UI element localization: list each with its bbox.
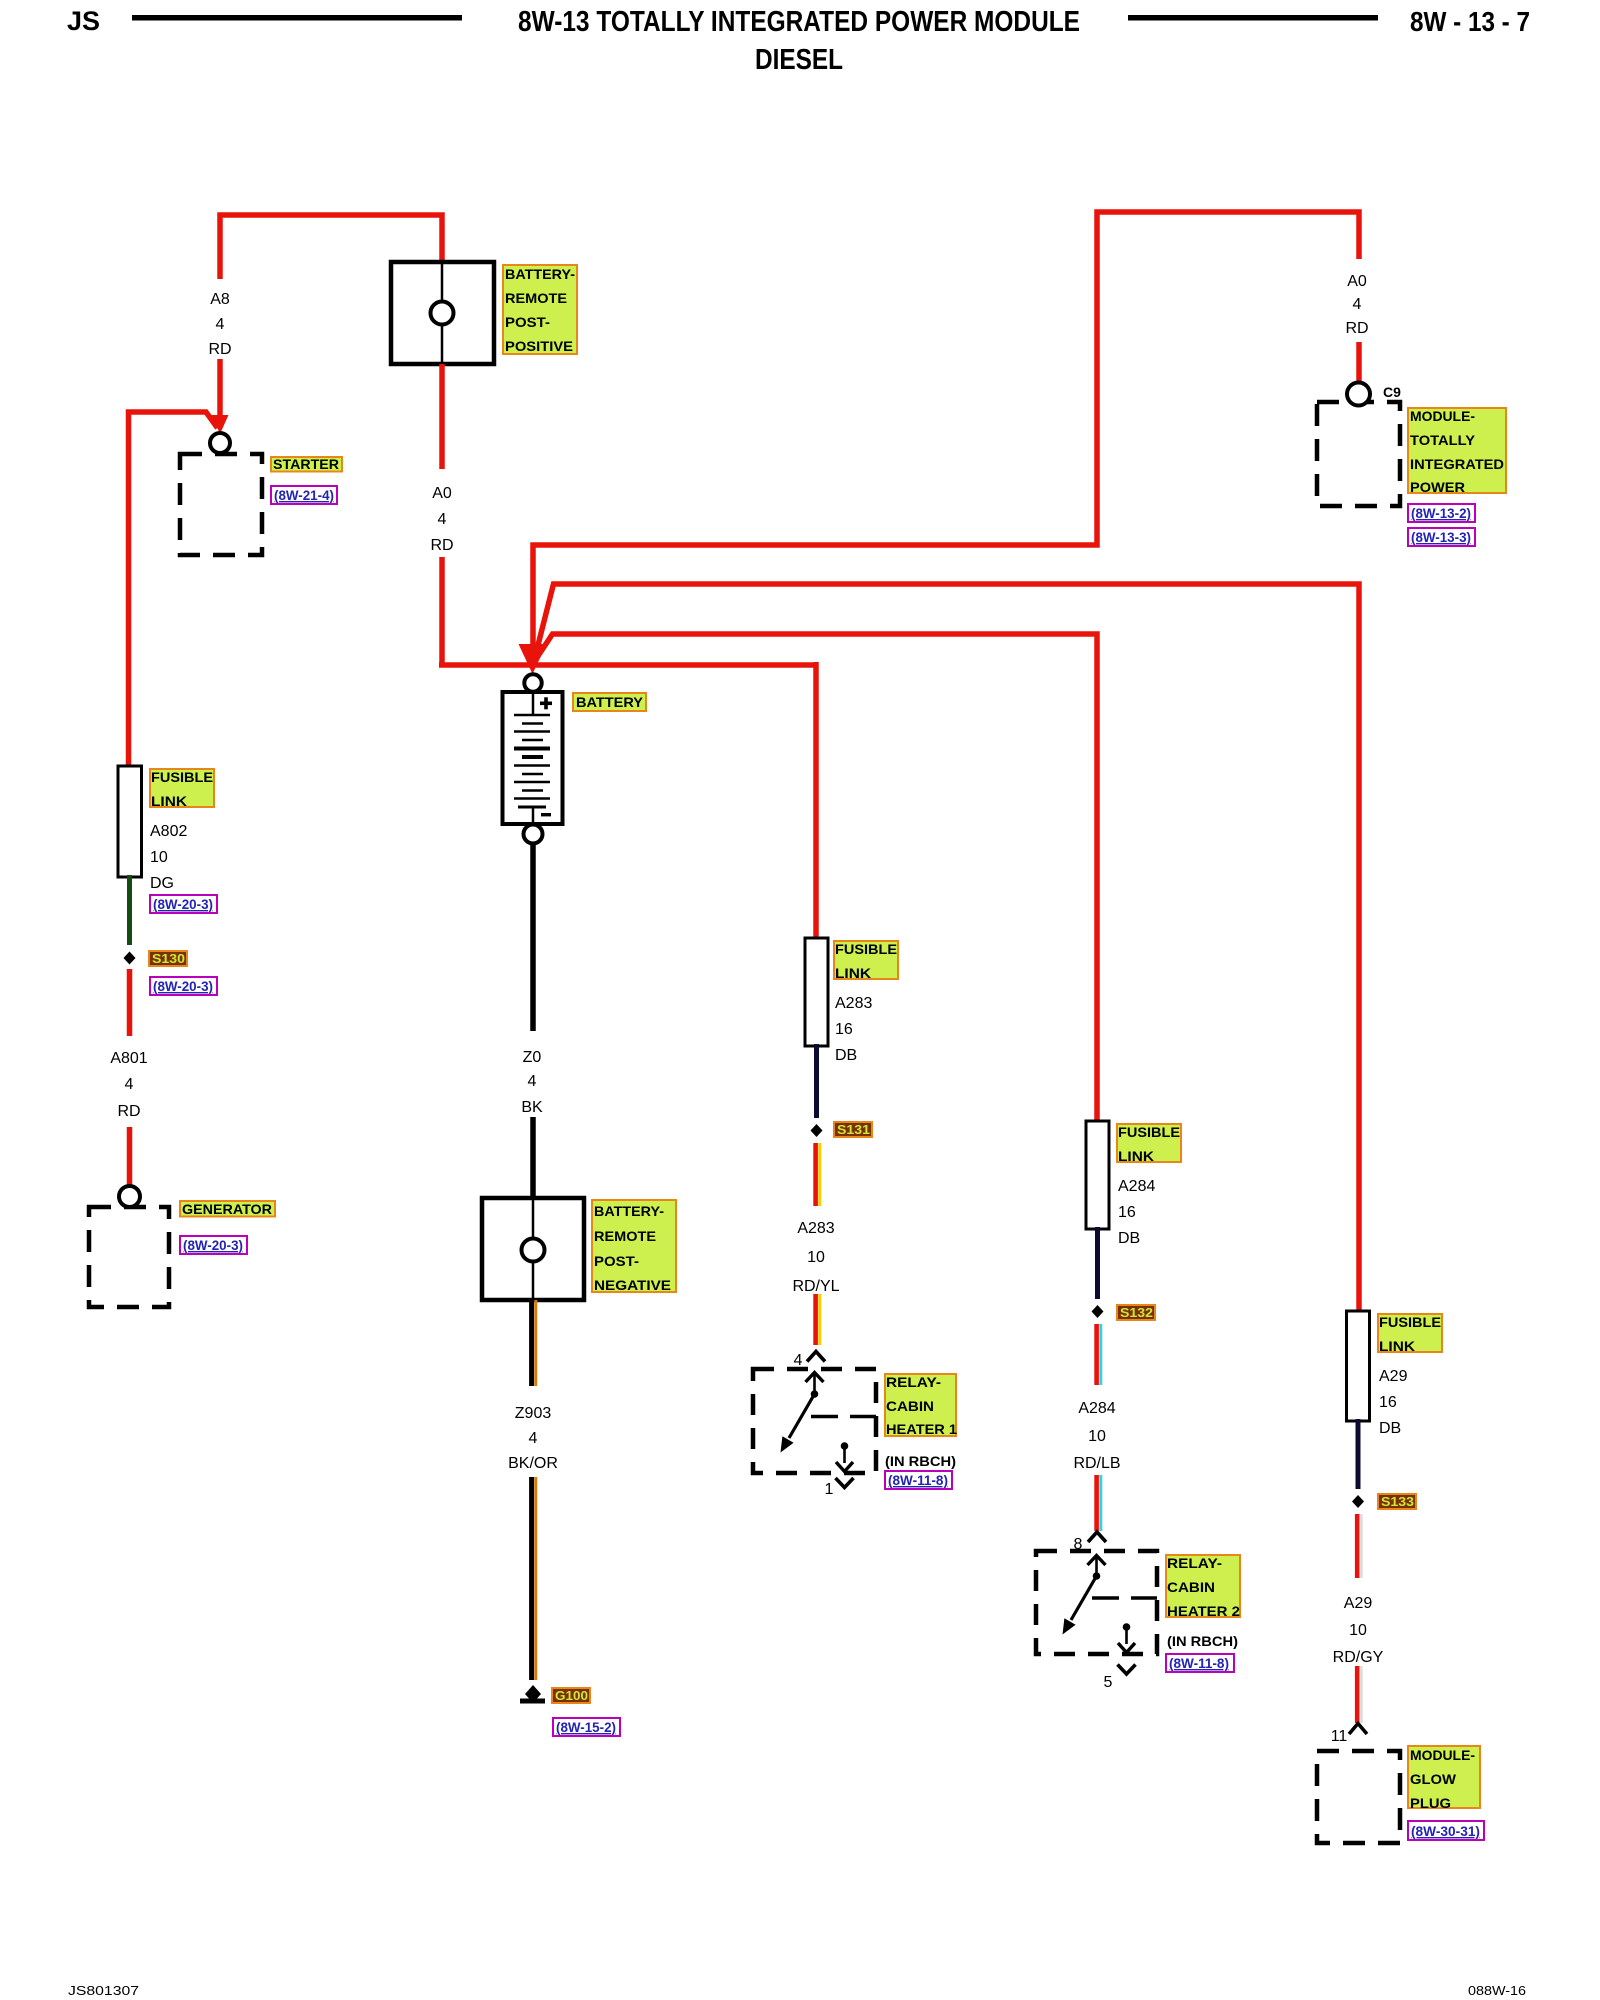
svg-text:S133: S133 (1381, 1494, 1414, 1509)
svg-text:10: 10 (150, 849, 168, 866)
splice S132 (1092, 1305, 1104, 1318)
fusible link A284 (1086, 1121, 1109, 1229)
link 8W-11-8 relay 2 (1166, 1654, 1234, 1672)
svg-text:4: 4 (125, 1076, 134, 1093)
svg-text:TOTALLY: TOTALLY (1410, 432, 1476, 448)
link 8W-20-3 (150, 895, 217, 913)
svg-text:DG: DG (150, 875, 174, 892)
svg-text:(IN RBCH): (IN RBCH) (885, 1453, 956, 1469)
wire battery feed riser to TIPM (533, 212, 1359, 652)
svg-text:JS: JS (67, 6, 100, 36)
generator dashed box (89, 1207, 169, 1307)
battery negative terminal ring (524, 825, 543, 844)
svg-text:A8: A8 (210, 291, 230, 308)
svg-text:1: 1 (825, 1481, 834, 1498)
svg-text:JS801307: JS801307 (68, 1983, 139, 1998)
battery remote post positive box (502, 691, 504, 693)
label MODULE-TOTALLY INTEGRATED POWER (1408, 408, 1506, 495)
svg-text:8W-13 TOTALLY INTEGRATED POWER: 8W-13 TOTALLY INTEGRATED POWER MODULE (518, 6, 1080, 38)
svg-text:4: 4 (216, 316, 225, 333)
label MODULE-GLOW PLUG (1408, 1746, 1480, 1811)
svg-text:PLUG: PLUG (1410, 1795, 1451, 1811)
svg-text:RD: RD (208, 341, 231, 358)
battery positive terminal ring (524, 674, 541, 691)
module totally integrated power dashed box (1317, 402, 1400, 506)
svg-text:REMOTE: REMOTE (505, 290, 567, 306)
svg-text:A0: A0 (1347, 273, 1367, 290)
svg-text:A284: A284 (1118, 1178, 1155, 1195)
label BATTERY-REMOTE POST-POSITIVE (503, 265, 577, 354)
splice S130 (124, 952, 136, 965)
svg-text:S132: S132 (1120, 1305, 1153, 1320)
svg-text:DB: DB (1379, 1420, 1401, 1437)
svg-text:(8W-11-8): (8W-11-8) (888, 1472, 948, 1488)
pin 5 chevron below relay 2 (1118, 1665, 1136, 1675)
pin 11 chevron of glow plug module (1349, 1724, 1367, 1735)
pin 1 chevron below relay 1 (836, 1478, 854, 1488)
svg-text:BATTERY-: BATTERY- (594, 1203, 664, 1219)
svg-text:A283: A283 (797, 1220, 834, 1237)
svg-text:A0: A0 (432, 485, 452, 502)
wire A284 16 DB segment (1095, 1227, 1100, 1299)
svg-text:RD/YL: RD/YL (792, 1278, 839, 1295)
svg-text:LINK: LINK (1379, 1338, 1415, 1354)
wire Z0 4 BK battery negative to remote post negative (530, 842, 536, 1031)
wire Z903 lower segment to ground (532, 1477, 536, 1680)
wire Z0 lower segment (530, 1117, 536, 1198)
label FUSIBLE LINK (A802) (150, 769, 214, 809)
svg-text:FUSIBLE: FUSIBLE (835, 941, 897, 957)
wire A801 4 RD lower segment (127, 1127, 133, 1186)
wire A283 10 RD/YL lower segment (816, 1294, 820, 1345)
wire A29 10 RD/GY upper segment (1357, 1514, 1361, 1578)
relay 1 internal pin arrow (806, 1373, 824, 1383)
link 8W-20-3 below S130 (150, 977, 217, 995)
relay 1 movable contact (789, 1394, 815, 1438)
svg-text:C9: C9 (1383, 384, 1401, 400)
label S133 (1378, 1494, 1416, 1509)
label GENERATOR (180, 1201, 275, 1217)
link 8W-20-3 generator (180, 1236, 247, 1254)
ground G100 (520, 1685, 545, 1704)
connector C9 ring (1347, 383, 1370, 406)
wire A29 16 DB segment (1356, 1419, 1361, 1489)
svg-text:NEGATIVE: NEGATIVE (594, 1277, 671, 1293)
svg-text:POWER: POWER (1410, 479, 1465, 495)
wire A0 4 RD from remote post positive down to battery positive (439, 364, 445, 469)
starter terminal ring (210, 433, 230, 453)
svg-text:RD: RD (430, 537, 453, 554)
fusible link A29 (1347, 1311, 1370, 1421)
wire A0 4 RD into connector C9 (1356, 342, 1362, 384)
junction arrowhead at starter terminal (212, 415, 229, 434)
battery (503, 690, 563, 824)
svg-text:10: 10 (1349, 1622, 1367, 1639)
fusible link A802 (118, 766, 142, 877)
svg-text:REMOTE: REMOTE (594, 1228, 656, 1244)
svg-text:(IN RBCH): (IN RBCH) (1167, 1633, 1238, 1649)
wire A802 10 DG segment (127, 875, 132, 945)
relay 1 actuator dashes (811, 1415, 838, 1418)
wire Z903 4 BK/OR upper segment (532, 1300, 536, 1386)
svg-text:G100: G100 (555, 1688, 588, 1703)
svg-text:(8W-30-31): (8W-30-31) (1411, 1823, 1480, 1839)
wire A0 4 RD corner into battery junction and feed to fusible link A283 (439, 557, 445, 665)
svg-text:LINK: LINK (835, 965, 871, 981)
svg-text:4: 4 (794, 1352, 803, 1369)
header rule right (1128, 15, 1378, 21)
svg-text:Z0: Z0 (523, 1049, 542, 1066)
svg-text:HEATER 1: HEATER 1 (886, 1421, 957, 1437)
svg-text:4: 4 (1353, 296, 1362, 313)
svg-text:(8W-20-3): (8W-20-3) (153, 896, 213, 912)
label BATTERY-REMOTE POST-NEGATIVE (592, 1200, 676, 1293)
svg-text:POSITIVE: POSITIVE (505, 338, 573, 354)
wire A8 4 RD top run from starter branch to battery remote post positive (220, 215, 442, 279)
relay cabin heater 1 dashed box (753, 1369, 876, 1473)
link 8W-11-8 relay 1 (885, 1471, 952, 1489)
svg-text:8W - 13 - 7: 8W - 13 - 7 (1410, 6, 1530, 37)
svg-text:4: 4 (438, 511, 447, 528)
wire A283 16 DB segment (814, 1044, 819, 1118)
svg-text:A283: A283 (835, 995, 872, 1012)
svg-text:BK/OR: BK/OR (508, 1455, 558, 1472)
svg-text:16: 16 (1118, 1204, 1136, 1221)
junction arrowhead at battery positive terminal (519, 644, 547, 674)
relay 2 fixed contact pin 5 (1123, 1623, 1131, 1631)
svg-text:16: 16 (835, 1021, 853, 1038)
label BATTERY (573, 693, 646, 711)
header rule left (132, 15, 462, 21)
wire A8 4 RD lower segment into starter terminal (217, 359, 223, 418)
svg-text:10: 10 (1088, 1428, 1106, 1445)
splice S133 (1352, 1495, 1364, 1508)
pin 4 chevron of relay cabin heater 1 (807, 1352, 825, 1362)
svg-text:A284: A284 (1078, 1400, 1115, 1417)
svg-text:(8W-11-8): (8W-11-8) (1169, 1655, 1229, 1671)
svg-text:RELAY-: RELAY- (886, 1374, 941, 1390)
svg-text:(8W-13-2): (8W-13-2) (1411, 505, 1471, 521)
label S132 (1117, 1305, 1155, 1320)
label S131 (834, 1122, 872, 1137)
label STARTER (271, 457, 342, 472)
svg-text:A29: A29 (1344, 1595, 1373, 1612)
wire A284 10 RD/LB upper segment (1097, 1324, 1101, 1385)
relay 2 internal pin arrow (1088, 1556, 1106, 1566)
svg-text:FUSIBLE: FUSIBLE (151, 769, 213, 785)
svg-text:A802: A802 (150, 823, 187, 840)
pin 8 chevron of relay cabin heater 2 (1088, 1532, 1106, 1542)
svg-text:FUSIBLE: FUSIBLE (1379, 1314, 1441, 1330)
svg-text:STARTER: STARTER (273, 456, 339, 472)
svg-text:RD/GY: RD/GY (1333, 1649, 1384, 1666)
link 8W-30-31 (1408, 1821, 1484, 1840)
svg-text:4: 4 (529, 1430, 538, 1447)
label FUSIBLE LINK (A284) (1117, 1124, 1181, 1164)
svg-text:11: 11 (1331, 1728, 1348, 1745)
svg-text:4: 4 (528, 1073, 537, 1090)
svg-text:HEATER 2: HEATER 2 (1167, 1603, 1240, 1619)
wire branch from starter terminal down to fusible link A802 (129, 412, 218, 768)
svg-text:MODULE-: MODULE- (1410, 1747, 1475, 1763)
module glow plug dashed box (1317, 1751, 1400, 1843)
svg-text:CABIN: CABIN (1167, 1579, 1215, 1595)
relay cabin heater 2 dashed box (1036, 1551, 1157, 1654)
svg-text:POST-: POST- (505, 314, 550, 330)
svg-text:(8W-13-3): (8W-13-3) (1411, 529, 1471, 545)
label RELAY-CABIN HEATER 2 (1166, 1555, 1240, 1619)
svg-text:Z903: Z903 (515, 1405, 552, 1422)
svg-text:GENERATOR: GENERATOR (182, 1201, 272, 1217)
svg-text:10: 10 (807, 1249, 825, 1266)
svg-text:FUSIBLE: FUSIBLE (1118, 1124, 1180, 1140)
link 8W-21-4 (271, 486, 337, 504)
svg-text:RD: RD (117, 1103, 140, 1120)
label FUSIBLE LINK (A29) (1378, 1314, 1442, 1354)
svg-text:RD: RD (1345, 320, 1368, 337)
label G100 (552, 1688, 590, 1703)
wire A284 10 RD/LB lower segment (1097, 1475, 1101, 1531)
svg-text:A801: A801 (110, 1050, 147, 1067)
wire A29 10 RD/GY lower segment (1357, 1666, 1361, 1723)
svg-text:LINK: LINK (151, 793, 187, 809)
label S130 (149, 951, 187, 966)
svg-text:16: 16 (1379, 1394, 1397, 1411)
svg-text:S131: S131 (837, 1122, 870, 1137)
wire A801 4 RD upper segment (127, 969, 133, 1036)
generator terminal ring (119, 1186, 140, 1207)
starter dashed box (180, 454, 262, 555)
svg-text:(8W-15-2): (8W-15-2) (556, 1719, 616, 1735)
battery remote post negative box (482, 1198, 584, 1300)
svg-text:DIESEL: DIESEL (755, 44, 843, 76)
fusible link A283 (805, 938, 828, 1046)
label RELAY-CABIN HEATER 1 (885, 1374, 957, 1437)
svg-text:GLOW: GLOW (1410, 1771, 1457, 1787)
link 8W-13-3 (1408, 528, 1475, 546)
wire A283 10 RD/YL upper segment (816, 1143, 820, 1206)
wire battery feed to fusible link A29 (536, 584, 1359, 1314)
svg-text:BATTERY: BATTERY (576, 694, 644, 710)
link 8W-15-2 (553, 1718, 620, 1736)
relay 2 movable contact (1071, 1576, 1097, 1620)
svg-text:(8W-20-3): (8W-20-3) (183, 1237, 243, 1253)
svg-text:POST-: POST- (594, 1253, 639, 1269)
svg-text:A29: A29 (1379, 1368, 1408, 1385)
svg-text:DB: DB (835, 1047, 857, 1064)
splice S131 (811, 1124, 823, 1137)
svg-text:INTEGRATED: INTEGRATED (1410, 456, 1504, 472)
svg-text:(8W-20-3): (8W-20-3) (153, 978, 213, 994)
svg-text:(8W-21-4): (8W-21-4) (274, 487, 334, 503)
svg-text:BATTERY-: BATTERY- (505, 266, 575, 282)
svg-text:088W-16: 088W-16 (1468, 1983, 1526, 1998)
svg-text:S130: S130 (152, 951, 185, 966)
svg-text:DB: DB (1118, 1230, 1140, 1247)
relay 1 fixed contact pin 1 (841, 1442, 849, 1450)
svg-text:CABIN: CABIN (886, 1398, 934, 1414)
relay 2 actuator dashes (1092, 1596, 1119, 1599)
svg-text:RD/LB: RD/LB (1073, 1455, 1120, 1472)
link 8W-13-2 (1408, 504, 1475, 522)
wire battery feed to fusible link A284 (536, 634, 1097, 1124)
svg-text:RELAY-: RELAY- (1167, 1555, 1222, 1571)
svg-text:MODULE-: MODULE- (1410, 408, 1475, 424)
svg-text:LINK: LINK (1118, 1148, 1154, 1164)
svg-text:5: 5 (1104, 1674, 1113, 1691)
label FUSIBLE LINK (A283) (834, 941, 898, 981)
svg-text:BK: BK (521, 1099, 543, 1116)
